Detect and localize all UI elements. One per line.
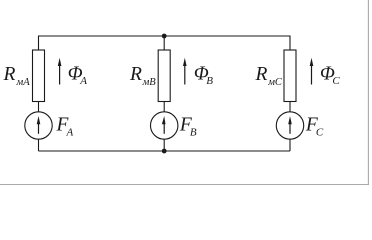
resistor R_mB	[158, 50, 170, 102]
label R_mB	[129, 64, 156, 88]
source F_C circle	[276, 112, 303, 139]
source F_B arrow	[162, 116, 166, 134]
wire bottom bus	[39, 150, 291, 152]
wire F_B to bottom bus	[163, 139, 165, 151]
label Phi_B	[194, 63, 213, 87]
label R_mC	[255, 64, 283, 88]
wire top bus	[39, 36, 291, 50]
svg-text:мС: мС	[267, 77, 283, 88]
label Phi_A	[68, 63, 87, 87]
flux arrow Phi_A	[58, 58, 62, 85]
source F_C arrow	[288, 116, 292, 134]
svg-text:мВ: мВ	[142, 77, 157, 88]
resistor R_mC	[284, 50, 296, 102]
flux arrow Phi_C	[310, 58, 314, 85]
wire R_mB to F_B	[163, 102, 165, 113]
svg-text:R: R	[255, 64, 268, 85]
svg-text:B: B	[206, 75, 213, 87]
frame right border	[367, 0, 369, 185]
label Phi_C	[320, 63, 340, 87]
node top junction	[162, 34, 167, 39]
wire F_C to bottom bus	[289, 139, 291, 151]
svg-text:C: C	[332, 75, 340, 87]
source F_A arrow	[37, 116, 41, 134]
wire branch B top	[163, 36, 165, 50]
svg-text:R: R	[3, 64, 16, 85]
wire R_mC to F_C	[289, 102, 291, 113]
svg-text:мА: мА	[16, 77, 31, 88]
wire R_mA to F_A	[38, 102, 40, 113]
resistor R_mA	[33, 50, 45, 102]
source F_A circle	[25, 112, 52, 139]
label F_A	[56, 115, 74, 139]
svg-text:C: C	[316, 126, 324, 138]
svg-text:A: A	[66, 126, 74, 138]
svg-text:B: B	[190, 126, 197, 138]
source F_B circle	[151, 112, 178, 139]
svg-text:A: A	[79, 75, 87, 87]
label R_mA	[3, 64, 31, 88]
label F_B	[179, 115, 197, 139]
label F_C	[305, 115, 324, 139]
svg-text:R: R	[129, 64, 142, 85]
frame bottom border	[0, 184, 369, 186]
flux arrow Phi_B	[183, 58, 187, 85]
wire F_A to bottom bus	[38, 139, 40, 151]
node bottom junction	[162, 149, 167, 154]
